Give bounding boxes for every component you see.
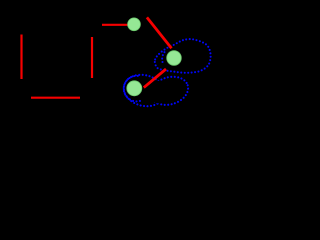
node N3 [127, 81, 142, 96]
hidden black node occluding dots right of N3 [148, 81, 171, 104]
community ring D (tight around node N2) [162, 51, 166, 63]
wire: diagonal edge D1 from hidden top node down to node N2 [147, 17, 172, 48]
community ellipse B (large right, around node N2 group) [155, 39, 211, 73]
node N2 [167, 51, 182, 66]
wire: edge left-square right side [91, 37, 93, 78]
node N1 [128, 18, 141, 31]
community ellipse E (between N3 and right side, tilted) [147, 72, 191, 109]
wire: edge left-square left side [20, 35, 22, 80]
community ring C (tight around node N3) [124, 76, 143, 102]
community ellipse A (around node N3 group, tilted) [120, 70, 168, 110]
wire: edge from square top-right corner to node N1 [102, 24, 128, 26]
wire: edge left-square bottom side [31, 97, 80, 99]
wire: diagonal edge D2 from node N3 up to node N2 [144, 69, 166, 88]
